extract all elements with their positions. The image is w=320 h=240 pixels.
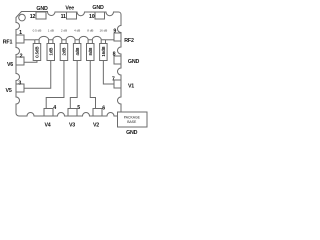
wire RF1 to attenuator input [24, 39, 35, 41]
bond wire arc sections 4-5 [79, 36, 88, 39]
svg-text:8: 8 [113, 52, 116, 58]
svg-text:RF1: RF1 [3, 40, 13, 46]
svg-text:8 dB: 8 dB [87, 29, 93, 33]
svg-text:3: 3 [18, 81, 21, 87]
wire section 4 to pin 5 [70, 61, 77, 109]
svg-text:5: 5 [77, 105, 80, 111]
pin 4 pad [44, 109, 53, 117]
svg-text:RF2: RF2 [124, 38, 134, 44]
svg-text:BASE: BASE [127, 120, 137, 124]
attenuator section 5 (8dB) [87, 44, 95, 61]
svg-text:GND: GND [128, 59, 140, 65]
svg-text:GND: GND [92, 5, 104, 11]
pin 1 pad [16, 35, 24, 43]
svg-text:0.5 dB: 0.5 dB [33, 29, 42, 33]
svg-text:10: 10 [89, 14, 95, 20]
pin 8 pad [114, 56, 121, 64]
svg-text:6: 6 [102, 106, 105, 112]
svg-text:PACKAGE: PACKAGE [124, 116, 141, 120]
pin 6 pad [93, 109, 102, 117]
section 2 top leads [49, 40, 53, 44]
package outline [16, 12, 121, 117]
wire section 1 to pin 2 [24, 61, 37, 63]
bond wire arc sections 3-4 [66, 36, 75, 39]
svg-text:9: 9 [113, 29, 116, 35]
wire section 5 to pin 6 [90, 61, 95, 109]
package base box [118, 112, 148, 127]
svg-text:1 dB: 1 dB [48, 29, 54, 33]
pin 9 pad [114, 33, 121, 41]
section 1 top leads [35, 40, 39, 44]
svg-text:1: 1 [19, 30, 22, 36]
svg-text:V5: V5 [6, 88, 12, 94]
pin 10 pad [95, 12, 105, 19]
bond wire arc sections 2-3 [53, 36, 62, 39]
attenuator section 6 (16dB) [100, 44, 108, 61]
attenuator section 1 (0.5dB) [33, 44, 41, 61]
svg-text:8dB: 8dB [88, 48, 93, 56]
attenuator section 3 (2dB) [60, 44, 67, 61]
wire attenuator output to RF2 [106, 39, 115, 41]
svg-text:4dB: 4dB [75, 48, 80, 56]
pin 3 pad [16, 84, 24, 92]
attenuator section 2 (1dB) [47, 44, 55, 61]
svg-text:7: 7 [112, 77, 115, 83]
bond wire arc sections 1-2 [39, 36, 49, 39]
svg-text:11: 11 [61, 14, 66, 20]
svg-text:V6: V6 [7, 62, 13, 68]
svg-text:GND: GND [36, 6, 48, 12]
section 6 top leads [101, 40, 105, 44]
wire section 2 to pin 3 [24, 61, 51, 89]
pin 11 pad [67, 12, 77, 19]
svg-text:4: 4 [53, 105, 56, 111]
svg-text:4 dB: 4 dB [74, 29, 80, 33]
attenuator section 4 (4dB) [73, 44, 81, 61]
svg-text:V3: V3 [69, 123, 75, 129]
section 4 top leads [75, 40, 79, 44]
svg-text:12: 12 [30, 14, 36, 20]
section 5 top leads [88, 40, 92, 44]
svg-text:GND: GND [126, 130, 138, 135]
svg-text:V1: V1 [128, 84, 134, 90]
pin 5 pad [68, 109, 77, 117]
svg-text:V4: V4 [44, 123, 50, 129]
index dot [19, 14, 26, 21]
wire section 6 to pin 7 [103, 61, 114, 85]
svg-text:1dB: 1dB [48, 48, 53, 56]
section 3 top leads [62, 40, 66, 44]
svg-text:Vee: Vee [65, 6, 74, 12]
wire section 3 to pin 4 [46, 61, 64, 109]
svg-text:16 dB: 16 dB [99, 29, 107, 33]
svg-text:2: 2 [20, 54, 23, 60]
svg-text:16dB: 16dB [101, 46, 106, 56]
svg-text:V2: V2 [93, 123, 99, 129]
pin 12 pad [36, 12, 46, 19]
svg-text:2dB: 2dB [62, 48, 67, 56]
svg-text:0.5dB: 0.5dB [35, 47, 40, 58]
svg-text:2 dB: 2 dB [61, 29, 67, 33]
bond wire arc sections 5-6 [92, 36, 101, 39]
pin 2 pad [16, 57, 24, 65]
pin 7 pad [114, 80, 121, 88]
